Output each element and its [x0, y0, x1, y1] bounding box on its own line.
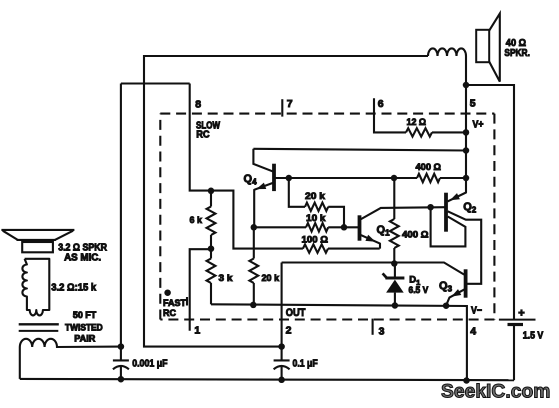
svg-text:Q3: Q3 [439, 280, 453, 294]
svg-text:100 Ω: 100 Ω [302, 234, 329, 245]
svg-text:SeekIC.com: SeekIC.com [441, 381, 550, 402]
svg-text:20 k: 20 k [262, 273, 280, 284]
svg-text:RC: RC [196, 130, 209, 141]
svg-text:PAIR: PAIR [74, 333, 95, 343]
svg-text:8: 8 [195, 98, 201, 110]
svg-text:7: 7 [287, 98, 293, 110]
svg-text:Q1: Q1 [377, 224, 391, 238]
svg-text:4: 4 [470, 325, 476, 337]
svg-text:3.2 Ω:15 k: 3.2 Ω:15 k [51, 282, 96, 294]
svg-text:6: 6 [378, 98, 384, 110]
svg-text:20 k: 20 k [305, 191, 326, 202]
svg-text:V+: V+ [473, 119, 484, 130]
svg-text:Q4: Q4 [244, 173, 258, 187]
svg-text:Q2: Q2 [463, 201, 477, 215]
svg-text:TWISTED: TWISTED [65, 323, 103, 333]
svg-text:3 k: 3 k [219, 273, 234, 284]
svg-text:0.001 μF: 0.001 μF [132, 359, 167, 370]
svg-text:1: 1 [194, 324, 200, 336]
svg-text:3: 3 [379, 325, 385, 337]
svg-text:6.5 V: 6.5 V [409, 285, 429, 295]
svg-text:400 Ω: 400 Ω [402, 230, 429, 241]
svg-text:1.5 V: 1.5 V [523, 331, 544, 342]
svg-text:6 k: 6 k [190, 215, 203, 226]
svg-text:2: 2 [286, 325, 292, 337]
svg-text:50 FT: 50 FT [73, 310, 97, 320]
svg-text:5: 5 [470, 98, 476, 110]
svg-text:+: + [518, 308, 524, 320]
svg-text:0.1 μF: 0.1 μF [293, 359, 318, 370]
svg-text:10 k: 10 k [306, 213, 326, 224]
svg-text:RC: RC [163, 308, 176, 319]
svg-text:AS MIC.: AS MIC. [64, 252, 101, 263]
svg-text:OUT: OUT [286, 307, 306, 319]
svg-text:SPKR.: SPKR. [504, 48, 530, 59]
svg-text:400 Ω: 400 Ω [416, 162, 442, 173]
svg-text:12 Ω: 12 Ω [407, 117, 427, 128]
svg-text:V−: V− [471, 306, 482, 317]
